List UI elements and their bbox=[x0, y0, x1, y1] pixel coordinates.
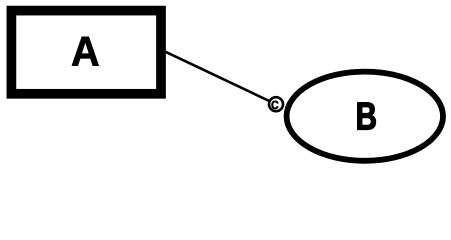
node B (ellipse) bbox=[287, 72, 443, 161]
label C bbox=[272, 101, 279, 109]
junction circle C bbox=[269, 97, 283, 111]
node A (rectangle) bbox=[11, 11, 161, 94]
label B bbox=[358, 103, 376, 130]
label A bbox=[72, 37, 99, 66]
wire bbox=[166, 52, 277, 104]
